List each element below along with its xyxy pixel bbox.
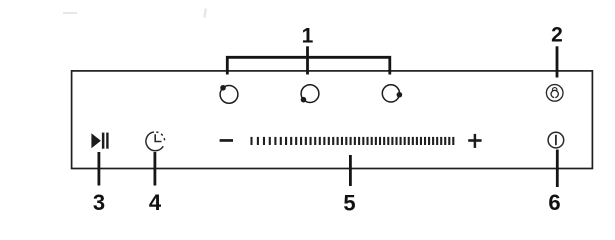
svg-text:2: 2 [551, 24, 563, 47]
svg-text:1: 1 [302, 24, 314, 47]
svg-text:6: 6 [548, 190, 560, 215]
svg-text:4: 4 [149, 190, 162, 215]
svg-text:5: 5 [343, 191, 355, 216]
svg-text:3: 3 [93, 190, 105, 215]
